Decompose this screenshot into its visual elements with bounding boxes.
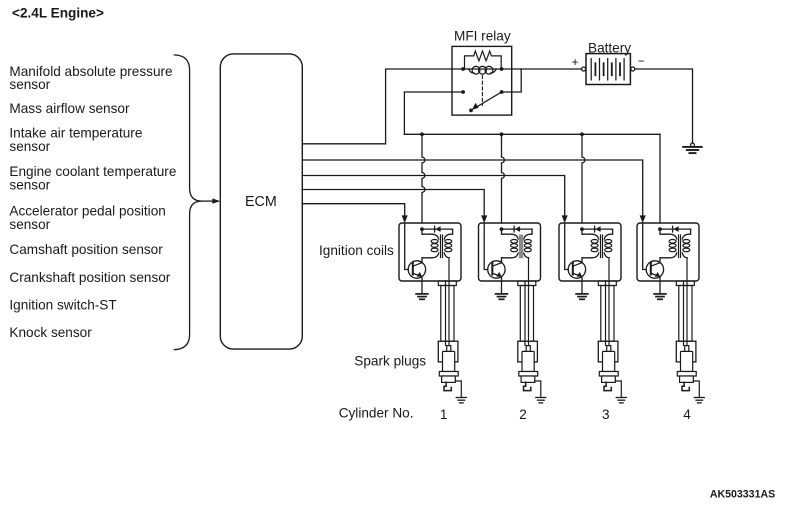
wire bus drop to ignition coil 3: [582, 134, 585, 223]
relay common node bottom: [469, 109, 473, 113]
transformer T4 primary lead: [660, 229, 677, 258]
transformer T4 primary winding: [669, 240, 676, 252]
ground (spark plug 2): [536, 397, 546, 399]
wire ECM signal to base Q1: [405, 223, 409, 270]
svg-text:Crankshaft position sensor: Crankshaft position sensor: [9, 270, 170, 285]
svg-text:Spark plugs: Spark plugs: [354, 353, 426, 368]
spark plug 3 terminal stem: [607, 346, 611, 352]
svg-text:2: 2: [519, 407, 527, 422]
wire spark plug 4 shell to ground: [693, 381, 699, 397]
wire secondary to spark plug 1: [448, 258, 450, 346]
spark plug 4 shell: [680, 376, 694, 382]
transformer T2 core (shaded): [519, 235, 523, 259]
bus junction node 3: [580, 132, 584, 136]
svg-text:sensor: sensor: [9, 178, 50, 193]
relay resistor R1 (parallel with coil): [465, 51, 502, 69]
coil output stub: [518, 281, 536, 286]
coil tower tube: [679, 286, 692, 342]
wire spark plug 3 shell to ground: [615, 381, 621, 397]
transformer T3 secondary winding: [605, 240, 612, 252]
wire ECM signal to base Q3: [565, 223, 569, 270]
ECM U1 box: [220, 54, 302, 349]
node coil 2 supply: [500, 227, 504, 231]
transformer T1 secondary lead: [444, 229, 452, 258]
diode D3: [582, 228, 613, 230]
MFI relay K1 box: [452, 46, 512, 115]
coil tower tube: [441, 286, 454, 342]
coil tower tube: [601, 286, 614, 342]
power transistor Q4: [646, 261, 663, 278]
ground (spark plug 3): [616, 397, 626, 399]
ground (spark plug 1): [456, 397, 466, 399]
relay dashed actuator link: [481, 76, 483, 106]
ground (coil 3 emitter): [576, 293, 588, 295]
ground (spark plug 4): [694, 397, 704, 399]
power transistor Q3: [568, 261, 585, 278]
spark plug 2 hex flange: [519, 372, 538, 377]
spark plug 2 terminal stem: [526, 346, 530, 352]
spark plug 1 head: [438, 341, 458, 362]
node coil 3 supply: [580, 227, 584, 231]
spark plug 3 electrode gap: [604, 382, 611, 390]
wire relay coil to battery +: [502, 68, 582, 70]
ignition coil 1 case: [399, 223, 461, 281]
wire bus drop to ignition coil 1: [422, 134, 425, 223]
wire spark plug 2 shell to ground: [535, 381, 541, 397]
ignition coil 1 assembly: [399, 223, 466, 403]
wire emitter to ground: [421, 277, 423, 294]
spark plug 1 electrode gap: [444, 382, 451, 390]
battery cells: [591, 59, 624, 80]
wire primary to transistor collector: [659, 258, 661, 263]
wire emitter to ground: [501, 277, 503, 294]
power transistor Q1: [408, 261, 425, 278]
battery terminal +: [582, 67, 586, 71]
spark plug 3 hex flange: [599, 372, 618, 377]
node coil 4 supply: [658, 227, 662, 231]
transformer T1 primary lead: [422, 229, 439, 258]
node coil 1 supply: [420, 227, 424, 231]
wire battery - to ground: [635, 69, 693, 143]
spark plug 1 shell: [442, 376, 456, 382]
coil supply bus from relay: [404, 133, 660, 135]
power transistor Q2: [488, 261, 505, 278]
wire emitter to ground: [581, 277, 583, 294]
coil output stub: [676, 281, 694, 286]
relay contact node right: [500, 90, 504, 94]
wire ECM ignition signal 2: [302, 190, 484, 217]
HT cable inner line: [524, 281, 526, 345]
ignition coil 4 case: [637, 223, 699, 281]
svg-text:+: +: [572, 55, 579, 69]
HT cable inner line: [445, 281, 447, 345]
wire primary to transistor collector: [421, 258, 423, 263]
diode D4: [660, 228, 691, 230]
transformer T1 core: [440, 235, 442, 258]
svg-text:Mass airflow sensor: Mass airflow sensor: [9, 101, 130, 116]
battery terminal -: [631, 67, 635, 71]
wire arrow brace to ECM: [202, 200, 214, 202]
spark plug 3 insulator: [603, 351, 615, 371]
transformer T3 primary lead: [582, 229, 599, 258]
svg-text:sensor: sensor: [9, 217, 50, 232]
transformer T1 secondary winding: [445, 240, 452, 252]
coil tower tube: [520, 286, 533, 342]
ignition coil 2 assembly: [479, 223, 546, 403]
transformer T2 secondary lead: [524, 229, 532, 258]
transformer T4 secondary winding: [683, 240, 690, 252]
svg-text:3: 3: [602, 407, 610, 422]
svg-text:−: −: [638, 54, 645, 68]
battery BT1 box: [586, 54, 630, 85]
wire battery feed to relay contact: [502, 69, 522, 92]
wire secondary to spark plug 4: [686, 258, 688, 346]
transformer T2 secondary winding: [524, 240, 531, 252]
svg-text:sensor: sensor: [9, 139, 50, 154]
svg-text:4: 4: [683, 407, 691, 422]
wire ECM ignition signal 1: [302, 204, 404, 217]
ground (coil 2 emitter): [496, 293, 508, 295]
sensor input list text: [9, 64, 176, 340]
transformer T2 primary winding: [511, 240, 518, 252]
spark plug 1 insulator: [443, 351, 455, 371]
svg-text:Ignition switch-ST: Ignition switch-ST: [9, 298, 116, 313]
HT cable inner line: [683, 281, 685, 345]
ignition coil 3 assembly: [559, 223, 626, 403]
svg-text:<2.4L Engine>: <2.4L Engine>: [12, 5, 104, 20]
svg-text:Ignition coils: Ignition coils: [319, 243, 394, 258]
transformer T2 primary lead: [502, 229, 519, 258]
relay contact node left: [461, 90, 465, 94]
coil output stub: [438, 281, 456, 286]
svg-text:Camshaft position sensor: Camshaft position sensor: [9, 242, 163, 257]
svg-text:1: 1: [440, 407, 448, 422]
svg-text:AK503331AS: AK503331AS: [710, 488, 775, 500]
wire secondary to spark plug 3: [608, 258, 610, 346]
svg-text:MFI relay: MFI relay: [454, 29, 511, 44]
spark plug 4 hex flange: [677, 372, 696, 377]
wire ECM signal to base Q2: [484, 223, 488, 270]
relay switch arm: [475, 92, 502, 108]
transformer T4 secondary lead: [682, 229, 690, 258]
ground (coil 1 emitter): [416, 293, 428, 295]
diode D2: [502, 228, 533, 230]
spark plug 1 hex flange: [439, 372, 458, 377]
spark plug 2 insulator: [522, 351, 534, 371]
spark plug 3 head: [598, 341, 618, 362]
wire relay contact to coil supply bus: [404, 92, 463, 134]
svg-text:Cylinder No.: Cylinder No.: [339, 406, 414, 421]
wire bus drop to ignition coil 2: [502, 134, 505, 223]
wire primary to transistor collector: [581, 258, 583, 263]
spark plug 4 terminal stem: [685, 346, 689, 352]
wire spark plug 1 shell to ground: [455, 381, 461, 397]
transformer T3 core: [600, 235, 602, 258]
wire ECM ignition signal 4: [302, 160, 642, 217]
svg-text:sensor: sensor: [9, 77, 50, 92]
svg-text:Knock sensor: Knock sensor: [9, 325, 92, 340]
spark plug 2 head: [518, 341, 538, 362]
relay coil node right: [500, 67, 504, 71]
transformer T1 primary winding: [431, 240, 438, 252]
bus junction node 1: [420, 132, 424, 136]
spark plug 3 shell: [602, 376, 616, 382]
spark plug 4 insulator: [681, 351, 693, 371]
spark plug 4 head: [676, 341, 696, 362]
wire ECM signal to base Q4: [643, 223, 647, 270]
spark plug 2 shell: [521, 376, 535, 382]
bus junction node 2: [500, 132, 504, 136]
spark plug 4 electrode gap: [682, 382, 689, 390]
svg-text:ECM: ECM: [245, 194, 277, 210]
relay coil L1: [463, 66, 502, 74]
ground (battery): [691, 143, 695, 147]
transformer T4 core: [678, 235, 680, 258]
wire primary to transistor collector: [501, 258, 503, 263]
ground (coil 4 emitter): [654, 293, 666, 295]
wire bus drop to ignition coil 4: [659, 134, 661, 223]
wire emitter to ground: [659, 277, 661, 294]
brace grouping sensors: [174, 55, 202, 350]
diode D1: [422, 228, 453, 230]
relay coil node left: [461, 67, 465, 71]
ignition coil 3 case: [559, 223, 621, 281]
transformer T3 secondary lead: [604, 229, 612, 258]
spark plug 1 terminal stem: [447, 346, 451, 352]
wire ECM to relay coil: [302, 69, 463, 144]
HT cable inner line: [605, 281, 607, 345]
ignition coil 4 assembly: [637, 223, 704, 403]
spark plug 2 electrode gap: [524, 382, 531, 390]
wire ECM ignition signal 3: [302, 176, 564, 217]
coil output stub: [598, 281, 616, 286]
wire secondary to spark plug 2: [528, 258, 530, 346]
transformer T3 primary winding: [591, 240, 598, 252]
ignition coil 2 case: [479, 223, 541, 281]
